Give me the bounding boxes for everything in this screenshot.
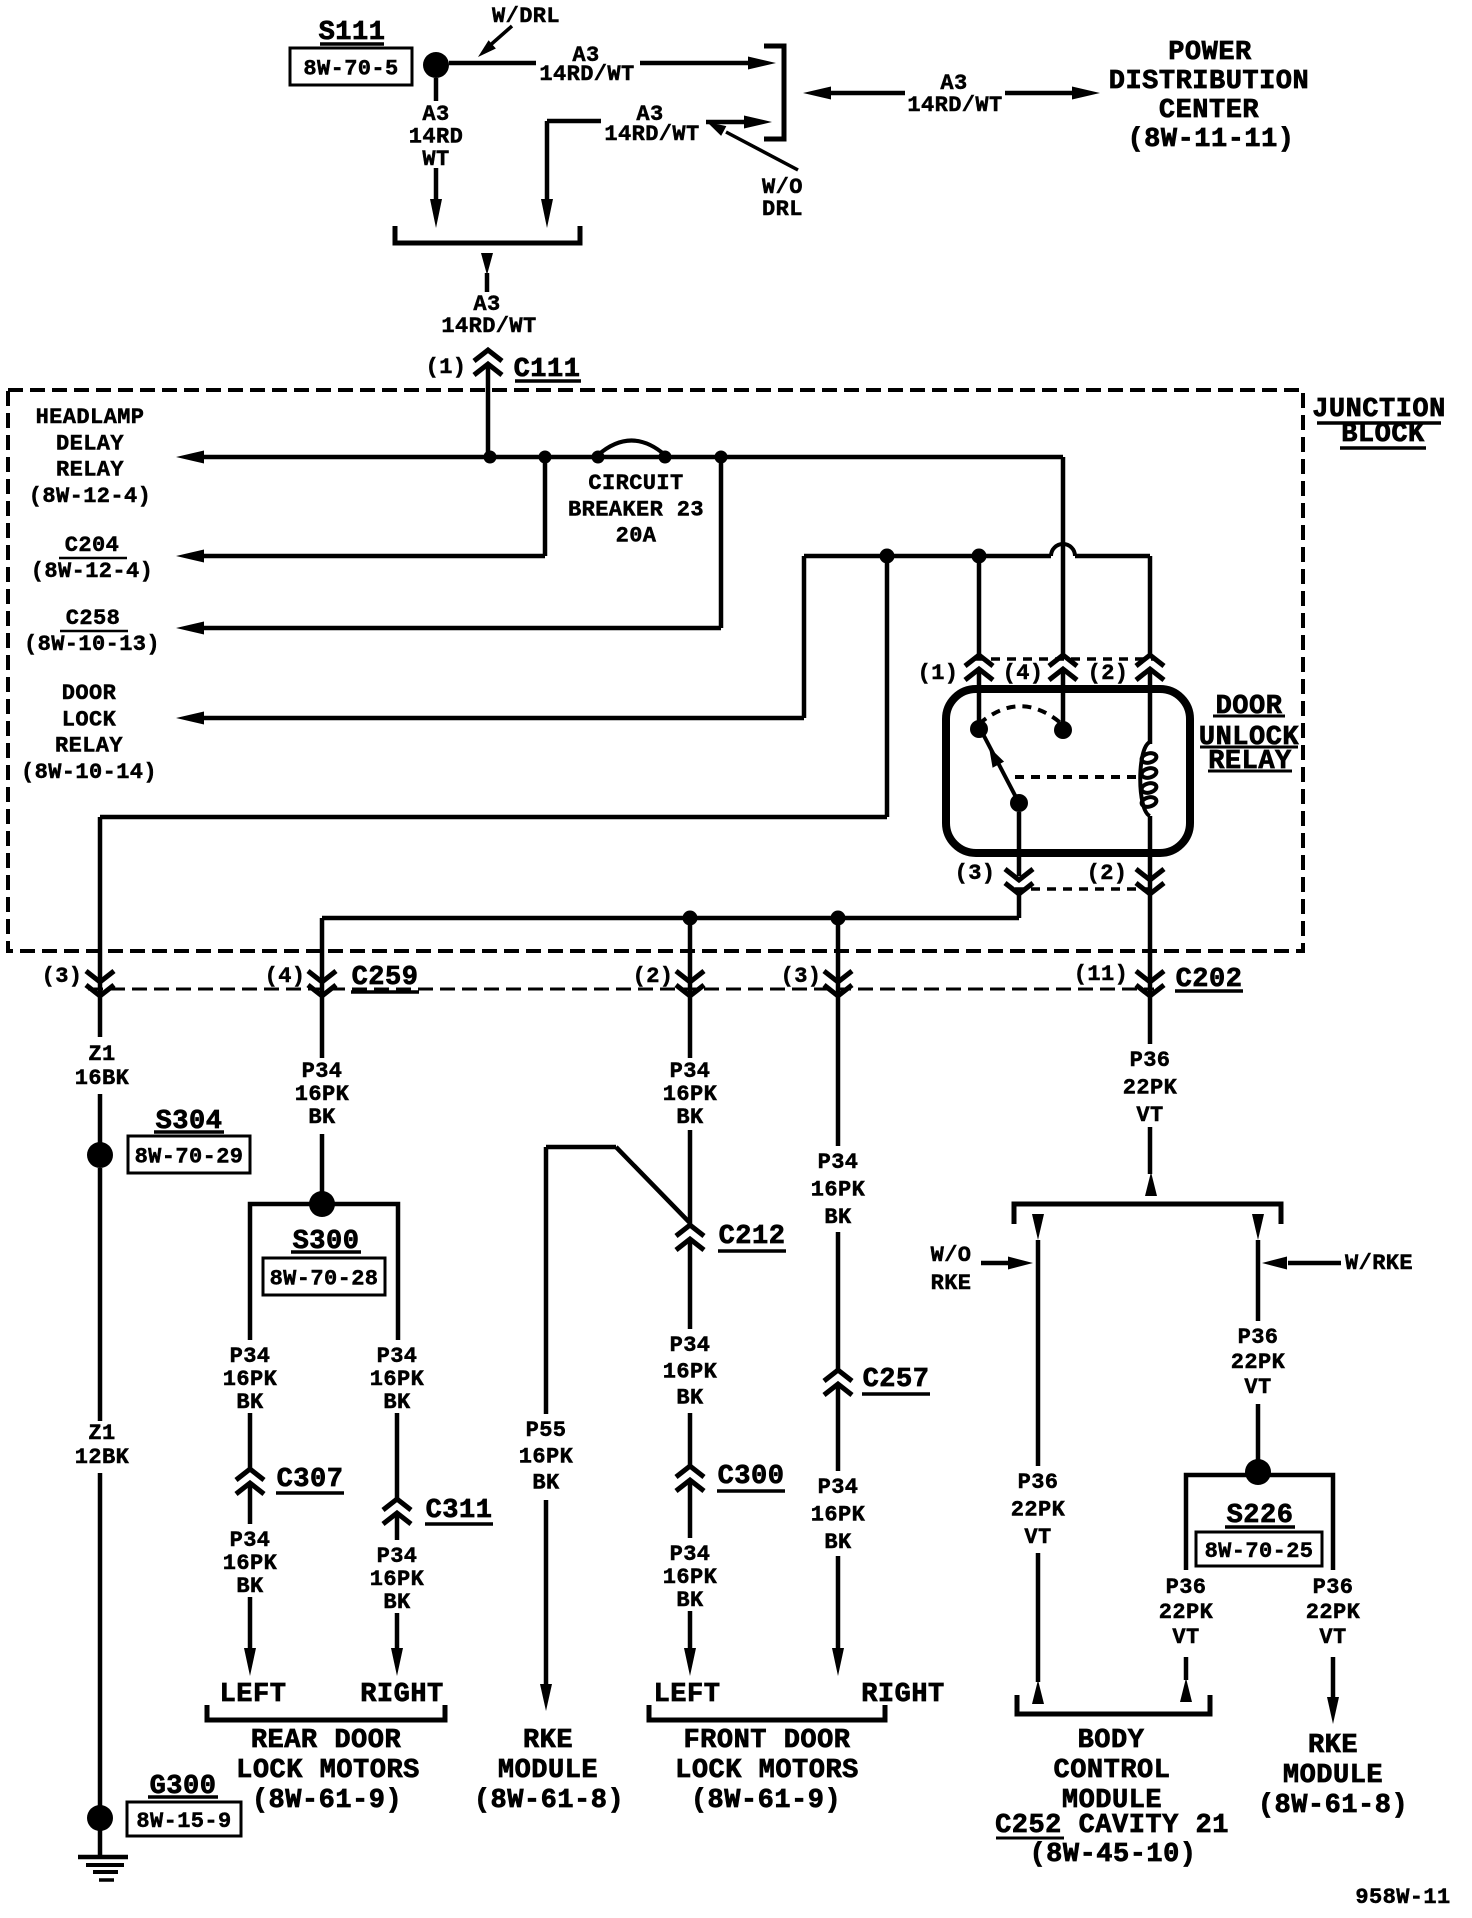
wire P36 below C202 [1148,996,1153,1044]
svg-text:C307: C307 [277,1465,344,1495]
svg-text:16PK: 16PK [519,1444,574,1469]
bracket connector (right, to PDC) [764,46,784,139]
connector C259 chevrons [308,971,336,982]
wire right vertical from bus to relay pin 4 [1061,457,1066,655]
svg-text:CENTER: CENTER [1159,96,1260,126]
svg-text:RELAY: RELAY [55,734,123,759]
connector chevrons relay pin 3 bottom [1005,869,1033,880]
splice S300 reference box 8W-70-28 [263,1258,385,1295]
svg-text:P55: P55 [526,1418,567,1443]
svg-text:HEADLAMP: HEADLAMP [36,405,145,430]
svg-text:LEFT: LEFT [654,1680,721,1710]
connector chevrons (3) relay branch [824,971,852,982]
dashed connector line above relay [975,657,1154,661]
relay common contact dot [970,720,988,738]
relay dashed alternate position arc [979,706,1063,725]
wire to C212 [688,1130,693,1225]
svg-text:(3): (3) [42,964,83,989]
arrow from W/O DRL to wire [726,132,798,170]
wire Z1 below connector [98,996,103,1037]
wire drop to C212 branch [688,918,693,996]
circuit breaker 23 element [592,451,605,464]
svg-text:P36: P36 [1166,1575,1207,1600]
svg-text:16PK: 16PK [370,1367,425,1392]
svg-text:P36: P36 [1238,1325,1279,1350]
svg-text:8W-70-25: 8W-70-25 [1205,1539,1314,1564]
svg-text:RIGHT: RIGHT [360,1680,444,1710]
svg-text:LOCK: LOCK [62,707,117,732]
wire to BCM [1036,1553,1041,1682]
svg-text:BK: BK [676,1386,704,1411]
svg-text:BK: BK [236,1574,264,1599]
dashed connector line below relay [1015,887,1154,891]
wire with arrow to left rear door lock motor [248,1597,253,1650]
svg-text:BK: BK [824,1205,852,1230]
arrow from W/O RKE label [981,1261,1011,1266]
wire A3 14RD/WT from S111 to bracket [449,61,536,66]
wire A3 14RD down from S111 [434,78,439,101]
wire coil to pin2 bottom [1148,816,1153,894]
bus junction dot (C204 branch) [539,451,552,464]
bus junction dot (C111 drop) [484,451,497,464]
svg-text:22PK: 22PK [1231,1350,1286,1375]
svg-text:VT: VT [1172,1625,1199,1650]
junction block dashed border [8,390,1303,951]
lower feed bracket [395,226,580,243]
splice S300 bus [250,1204,398,1340]
junction dot (to front door lock motors) [683,911,698,926]
svg-text:C311: C311 [426,1496,493,1526]
connector chevrons (3) left [86,971,114,982]
svg-text:MODULE: MODULE [498,1756,598,1786]
svg-text:RIGHT: RIGHT [861,1680,945,1710]
svg-text:BK: BK [383,1590,411,1615]
connector chevrons relay pin 2 bottom [1136,869,1164,880]
door unlock relay body [946,689,1190,853]
svg-text:12BK: 12BK [75,1445,130,1470]
svg-text:VT: VT [1319,1625,1346,1650]
svg-text:RELAY: RELAY [56,458,124,483]
svg-text:P34: P34 [670,1059,711,1084]
wire below C300 [688,1480,693,1538]
svg-text:RKE: RKE [931,1271,972,1296]
wire below C311 [395,1513,400,1540]
svg-text:BK: BK [676,1588,704,1613]
dashed connector row line [88,988,1154,991]
arrow from W/RKE label [1288,1261,1341,1266]
svg-text:MODULE: MODULE [1283,1761,1383,1791]
wire door lock relay feed [802,556,807,718]
svg-text:BLOCK: BLOCK [1341,420,1425,450]
svg-text:LEFT: LEFT [220,1680,287,1710]
relay switch arm [983,734,1019,803]
svg-text:16PK: 16PK [295,1082,350,1107]
feed arrow into bracket [1145,1172,1157,1196]
svg-text:(8W-61-8): (8W-61-8) [1258,1791,1408,1821]
BCM splice bracket [1014,1204,1281,1224]
svg-text:RKE: RKE [523,1726,573,1756]
connector C257 chevrons [824,1370,852,1381]
splice S111 dot [423,52,449,78]
connector C202 chevrons [1136,971,1164,982]
svg-text:(1): (1) [426,355,467,380]
svg-text:LOCK MOTORS: LOCK MOTORS [675,1756,859,1786]
svg-text:CIRCUIT: CIRCUIT [588,471,683,496]
relay coil [1140,742,1150,816]
wire to C307 [248,1413,253,1469]
connector C307 chevrons [236,1469,264,1480]
feed arrow below bracket [481,253,493,275]
svg-text:REAR DOOR: REAR DOOR [251,1726,402,1756]
arrow from W/DRL to wire [487,26,512,48]
svg-text:P34: P34 [818,1475,859,1500]
connector chevrons relay pin 4 [1049,655,1077,666]
rear door lock motors bracket [207,1705,445,1720]
ground G300 dot [87,1805,113,1831]
svg-text:16PK: 16PK [223,1367,278,1392]
arrowhead into bracket (W/DRL branch) [748,57,776,70]
wire below C212 [688,1239,693,1329]
svg-text:22PK: 22PK [1306,1600,1361,1625]
wire relay pin3 out [1017,812,1022,876]
svg-text:(8W-61-8): (8W-61-8) [474,1786,624,1816]
wire pin3 distribution run y=918 [322,916,1019,921]
svg-text:(4): (4) [265,964,306,989]
svg-text:DOOR: DOOR [62,681,117,706]
wire to S226 [1256,1404,1261,1472]
svg-text:CONTROL: CONTROL [1054,1756,1171,1786]
wire Z1 12BK down [98,1168,103,1421]
svg-text:16PK: 16PK [811,1178,866,1203]
svg-text:(8W-10-13): (8W-10-13) [24,632,160,657]
wire P34 below C259 [320,996,325,1058]
wire W/O-DRL branch corner [547,119,601,124]
connector chevrons relay pin 2 [1136,655,1164,666]
svg-text:P36: P36 [1130,1048,1171,1073]
svg-text:BREAKER 23: BREAKER 23 [568,497,704,522]
svg-text:16PK: 16PK [663,1565,718,1590]
svg-text:(3): (3) [955,861,996,886]
svg-text:14RD: 14RD [409,125,463,150]
svg-text:W/O: W/O [931,1243,972,1268]
front door lock motors bracket [649,1705,885,1720]
wire C258 branch [719,457,724,628]
wire below C307 [248,1483,253,1524]
relay movable contact dot (pin3) [1010,794,1028,812]
svg-text:20A: 20A [616,524,657,549]
arrowhead into bracket (W/O DRL branch) [706,120,748,125]
svg-text:(1): (1) [918,661,959,686]
svg-text:P34: P34 [230,1344,271,1369]
svg-text:16PK: 16PK [663,1082,718,1107]
splice S226 reference box 8W-70-25 [1196,1532,1322,1566]
svg-text:16PK: 16PK [223,1551,278,1576]
wire with arrow to right front door lock motor [836,1556,841,1650]
svg-text:W/RKE: W/RKE [1345,1251,1413,1276]
arrow to C204 [176,550,204,563]
relay NC contact dot (pin4) [1054,721,1072,739]
svg-text:16BK: 16BK [75,1066,130,1091]
svg-text:DRL: DRL [762,197,803,222]
svg-text:P34: P34 [377,1544,418,1569]
wire P34 to S300 [320,1134,325,1192]
svg-text:(8W-61-9): (8W-61-9) [691,1786,841,1816]
junction dot (to door lock relay circuit) [880,549,895,564]
wire with arrow to left front door lock motor [688,1611,693,1650]
svg-text:VT: VT [1136,1103,1163,1128]
svg-text:DELAY: DELAY [56,431,124,456]
svg-text:16PK: 16PK [370,1567,425,1592]
svg-text:RKE: RKE [1308,1731,1358,1761]
svg-text:C258: C258 [66,606,120,631]
junction dot (to relay pin 1) [972,549,987,564]
svg-text:(11): (11) [1074,962,1128,987]
svg-text:BK: BK [824,1530,852,1555]
connector chevrons relay pin 1 [965,655,993,666]
arrow to headlamp delay relay [176,451,204,464]
wire corner to relay pin 2 [1148,556,1153,655]
wire to C311 [395,1413,400,1499]
svg-text:C257: C257 [863,1365,930,1395]
splice S300 dot [309,1191,335,1217]
wire S226 left leg to BCM [1184,1657,1189,1680]
svg-text:(2): (2) [1088,661,1129,686]
splice S304 reference box 8W-70-29 [128,1136,250,1173]
wire pin2 into relay [1148,669,1153,744]
connector C212 chevrons [676,1225,704,1236]
wire with arrow to RKE module (right) [1331,1657,1336,1698]
connector C111 chevrons [474,350,502,361]
wire to BCM splice bracket [1148,1127,1153,1174]
splice S226 dot [1245,1459,1271,1485]
wire with arrow into lower bracket (right) [541,199,553,228]
splice S226 bus [1186,1475,1333,1570]
svg-text:BK: BK [383,1390,411,1415]
svg-text:(8W-12-4): (8W-12-4) [29,484,151,509]
wire C204 branch [543,457,548,556]
svg-text:8W-15-9: 8W-15-9 [136,1809,231,1834]
svg-text:BK: BK [236,1390,264,1415]
wire branch to Z1 ground path [885,556,890,817]
feed arrow W/O RKE branch [1032,1214,1044,1240]
wire W/RKE branch down [1256,1240,1261,1321]
svg-text:BK: BK [532,1471,560,1496]
svg-text:BK: BK [676,1105,704,1130]
wire A3 14RD/WT to PDC (double arrow) [829,91,905,96]
svg-text:8W-70-5: 8W-70-5 [303,57,398,82]
svg-text:P34: P34 [302,1059,343,1084]
wire with arrow into lower bracket (left) [434,168,439,200]
svg-text:Z1: Z1 [88,1421,115,1446]
svg-text:22PK: 22PK [1159,1600,1214,1625]
wire Z1 to S304 [98,1094,103,1143]
svg-text:P34: P34 [377,1344,418,1369]
junction dot (to C257 right motor) [831,911,846,926]
svg-text:P36: P36 [1018,1470,1059,1495]
svg-text:(8W-11-11): (8W-11-11) [1127,125,1294,155]
svg-text:Z1: Z1 [88,1042,115,1067]
wire with arrow to right rear door lock motor [395,1613,400,1650]
svg-text:22PK: 22PK [1123,1076,1178,1101]
arrow to door lock relay [176,712,204,725]
wire distribution run y=556 [804,554,1051,559]
svg-text:BODY: BODY [1078,1726,1145,1756]
svg-text:(8W-10-14): (8W-10-14) [21,760,157,785]
svg-text:BK: BK [308,1105,336,1130]
wire Z1 to G300 [98,1473,103,1818]
wire bus B+ feed in junction block [202,455,1063,460]
wire from C111 into junction block [486,364,491,457]
svg-text:VT: VT [1244,1375,1271,1400]
svg-text:958W-11: 958W-11 [1355,1885,1450,1910]
svg-text:(2): (2) [1087,861,1128,886]
svg-text:P36: P36 [1313,1575,1354,1600]
wire hop over crossing [1051,544,1075,556]
BCM bracket [1017,1695,1210,1714]
svg-text:W/DRL: W/DRL [492,4,560,29]
svg-text:14RD/WT: 14RD/WT [539,62,634,87]
wire branch to relay pin 1 [977,556,982,655]
svg-text:C259: C259 [352,963,419,993]
wire W/O RKE branch down [1036,1240,1041,1466]
arrow into BCM (right) [1180,1678,1192,1702]
svg-text:16PK: 16PK [663,1359,718,1384]
wire with arrow to RKE module [544,1500,549,1685]
wire P34 below (3) connector [836,996,841,1146]
wire pin4 into relay [1061,669,1066,730]
svg-text:A3: A3 [422,102,449,127]
wire RKE tap corner [546,1145,616,1150]
svg-text:VT: VT [1024,1525,1051,1550]
svg-text:P34: P34 [230,1528,271,1553]
svg-text:22PK: 22PK [1011,1498,1066,1523]
wire below C257 [836,1384,841,1471]
ground symbol [98,1818,103,1857]
svg-text:P34: P34 [670,1542,711,1567]
wire pin1 into relay [977,669,982,729]
svg-text:C300: C300 [718,1462,785,1492]
svg-text:(2): (2) [633,964,674,989]
svg-text:(3): (3) [781,964,822,989]
svg-text:C212: C212 [719,1222,786,1252]
connector C300 chevrons [676,1466,704,1477]
svg-text:8W-70-29: 8W-70-29 [135,1145,244,1170]
svg-text:14RD/WT: 14RD/WT [907,93,1002,118]
splice S111 reference box 8W-70-5 [290,48,412,85]
feed arrow W/RKE branch [1252,1214,1264,1240]
arrow into BCM (left) [1032,1680,1044,1704]
svg-text:8W-70-28: 8W-70-28 [270,1267,379,1292]
svg-text:(8W-45-10): (8W-45-10) [1029,1840,1196,1870]
wire P34 below (2) connector [688,996,693,1058]
svg-text:(8W-61-9): (8W-61-9) [252,1786,402,1816]
svg-text:LOCK MOTORS: LOCK MOTORS [236,1756,420,1786]
svg-text:P34: P34 [670,1333,711,1358]
bus junction dot (C258 branch) [715,451,728,464]
connector chevrons (2) [676,971,704,982]
svg-text:P34: P34 [818,1150,859,1175]
svg-text:C204: C204 [65,533,119,558]
ground G300 reference box 8W-15-9 [127,1802,241,1836]
wire drop to C257 branch [836,918,841,996]
splice S304 dot [87,1142,113,1168]
svg-text:(8W-12-4): (8W-12-4) [31,559,153,584]
arrow to C258 [176,622,204,635]
relay dashed actuating link [1015,775,1137,779]
connector C311 chevrons [383,1499,411,1510]
svg-text:FRONT DOOR: FRONT DOOR [683,1726,850,1756]
svg-text:16PK: 16PK [811,1503,866,1528]
wire to C300 [688,1413,693,1466]
svg-text:POWER: POWER [1168,38,1252,68]
wire drop to C259 [320,918,325,996]
svg-text:14RD/WT: 14RD/WT [604,122,699,147]
svg-text:DISTRIBUTION: DISTRIBUTION [1109,67,1309,97]
wire to C257 [836,1232,841,1370]
svg-text:14RD/WT: 14RD/WT [441,314,536,339]
svg-text:(4): (4) [1003,661,1044,686]
wire pin2 down to C202 [1148,894,1153,996]
